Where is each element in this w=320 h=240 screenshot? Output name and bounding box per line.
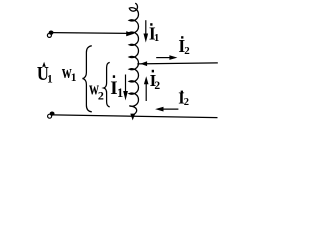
arrowhead coil bottom lead onto bottom wire <box>130 114 135 121</box>
brace w2 span <box>104 62 110 107</box>
svg-text:1: 1 <box>117 86 123 100</box>
svg-text:2: 2 <box>98 88 104 102</box>
arrowhead on mid wire pointing left <box>140 61 147 66</box>
label I1 (left of coil) dot <box>113 75 115 78</box>
winding L1 (coil) <box>129 3 138 114</box>
brace w1 span <box>83 46 92 112</box>
svg-text:2: 2 <box>184 97 189 108</box>
arrow I2 up (below mid wire) <box>144 76 149 101</box>
svg-text:2: 2 <box>184 45 190 57</box>
svg-text:1: 1 <box>71 72 77 84</box>
wire mid output (tap to right) <box>137 63 218 64</box>
arrow I2 right (above mid wire) <box>156 55 177 60</box>
label U1 accent <box>42 62 46 67</box>
wire bottom (terminal across to right output) <box>53 115 217 118</box>
label I2 (mid) dot <box>152 70 154 73</box>
arrowhead into coil at top tap <box>126 31 134 36</box>
terminal T1 (top input) <box>47 30 53 37</box>
wire top input (terminal to coil tap) <box>53 32 128 35</box>
svg-text:2: 2 <box>154 80 160 92</box>
arrow I1 down (left of coil) <box>123 75 128 101</box>
label I2 (top right) dot <box>181 36 183 38</box>
label I2 (bottom right) dot <box>181 91 183 94</box>
terminal T2 (bottom input) <box>48 112 55 119</box>
svg-text:1: 1 <box>154 33 159 44</box>
arrow I1 down (right of coil top) <box>144 20 149 42</box>
arrow I2 left (above bottom wire) <box>155 107 178 112</box>
label I1 (top right) dot <box>150 23 152 26</box>
svg-text:1: 1 <box>47 74 53 86</box>
